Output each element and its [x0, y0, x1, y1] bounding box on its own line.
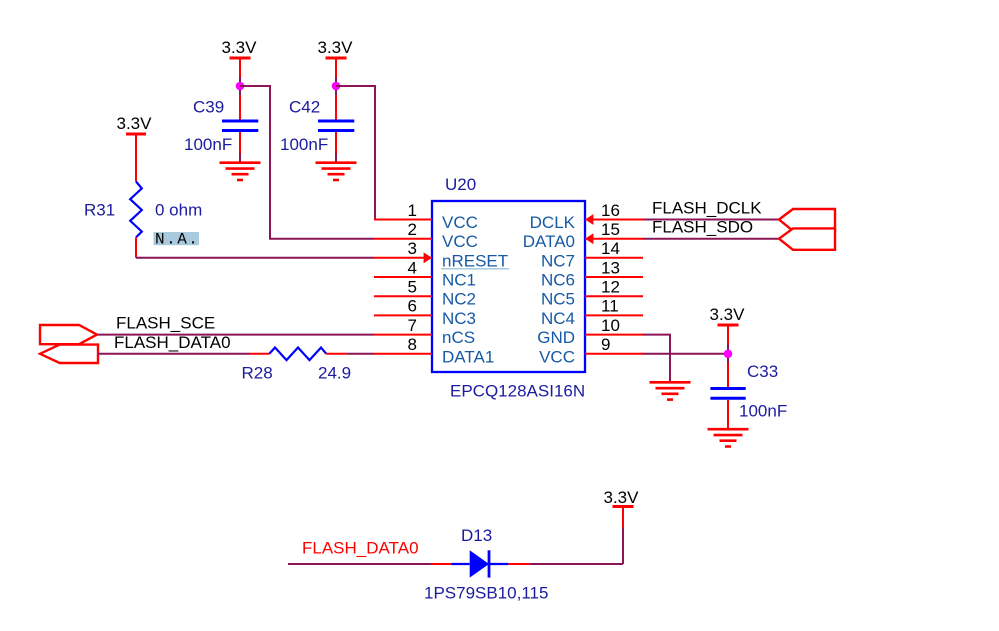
- port FLASH_SCE: [40, 325, 97, 344]
- svg-text:100nF: 100nF: [739, 401, 787, 420]
- svg-text:9: 9: [601, 335, 610, 354]
- svg-text:0 ohm: 0 ohm: [155, 200, 202, 219]
- svg-text:R31: R31: [84, 200, 115, 219]
- svg-text:DCLK: DCLK: [530, 213, 576, 232]
- svg-text:NC5: NC5: [541, 290, 575, 309]
- svg-text:VCC: VCC: [539, 347, 575, 366]
- svg-text:13: 13: [601, 258, 620, 277]
- wire R31 to pin 3 (nRESET): [136, 257, 374, 259]
- svg-text:C42: C42: [289, 98, 320, 117]
- pin 9 stub: [585, 353, 643, 355]
- pin 8 stub: [374, 353, 432, 355]
- svg-text:3.3V: 3.3V: [117, 114, 153, 133]
- svg-text:3.3V: 3.3V: [710, 305, 746, 324]
- wire C39 junction to pin 2: [240, 86, 374, 239]
- svg-text:1: 1: [408, 201, 417, 220]
- svg-text:NC1: NC1: [442, 271, 476, 290]
- svg-text:15: 15: [601, 220, 620, 239]
- wire pin 16 to FLASH_DCLK port: [643, 219, 779, 221]
- junction dot C39 net: [236, 82, 245, 91]
- pin 6 stub: [374, 314, 432, 316]
- pin 14 stub: [585, 257, 643, 259]
- capacitor C42: [318, 121, 354, 162]
- svg-text:12: 12: [601, 278, 620, 297]
- ground for pin 10: [650, 382, 691, 399]
- wire pin 15 to FLASH_SDO port: [643, 238, 779, 240]
- ground under C39: [220, 163, 261, 180]
- svg-text:C33: C33: [747, 362, 778, 381]
- svg-text:6: 6: [408, 297, 417, 316]
- svg-text:NC4: NC4: [541, 309, 575, 328]
- svg-text:24.9: 24.9: [318, 363, 351, 382]
- svg-text:VCC: VCC: [442, 213, 478, 232]
- svg-text:14: 14: [601, 239, 620, 258]
- ground under C33: [708, 429, 749, 446]
- svg-text:FLASH_DCLK: FLASH_DCLK: [652, 199, 762, 218]
- svg-text:C39: C39: [193, 98, 224, 117]
- svg-text:8: 8: [408, 335, 417, 354]
- pin 15 input arrow: [585, 233, 593, 244]
- svg-text:R28: R28: [242, 363, 273, 382]
- pin 13 stub: [585, 276, 643, 278]
- svg-text:NC2: NC2: [442, 290, 476, 309]
- svg-text:3: 3: [408, 239, 417, 258]
- pin 16 input arrow: [585, 214, 593, 225]
- resistor R28: [269, 348, 326, 361]
- svg-text:FLASH_DATA0: FLASH_DATA0: [302, 539, 419, 558]
- junction dot C33 net: [724, 350, 733, 359]
- pin 12 stub: [585, 295, 643, 297]
- wire diode D13 to 3.3V: [508, 507, 623, 565]
- svg-text:nCS: nCS: [442, 328, 475, 347]
- svg-text:NC7: NC7: [541, 251, 575, 270]
- op IC U20 box: [432, 201, 585, 372]
- svg-text:4: 4: [408, 258, 417, 277]
- svg-text:N.A.: N.A.: [155, 231, 199, 249]
- pin 4 stub: [374, 276, 432, 278]
- nRESET active-low underline: [441, 268, 509, 270]
- pin 3 input arrow: [424, 252, 432, 263]
- svg-text:GND: GND: [537, 328, 575, 347]
- pin 15 stub: [585, 238, 643, 240]
- svg-text:3.3V: 3.3V: [318, 38, 354, 57]
- svg-text:10: 10: [601, 316, 620, 335]
- svg-text:1PS79SB10,115: 1PS79SB10,115: [424, 584, 548, 603]
- svg-text:DATA0: DATA0: [523, 232, 575, 251]
- wire FLASH_DATA0 port to R28: [98, 353, 269, 355]
- svg-text:EPCQ128ASI16N: EPCQ128ASI16N: [450, 381, 585, 400]
- pin 7 stub: [374, 334, 432, 336]
- svg-text:nRESET: nRESET: [442, 251, 508, 270]
- svg-text:5: 5: [408, 278, 417, 297]
- svg-text:3.3V: 3.3V: [604, 488, 640, 507]
- svg-text:100nF: 100nF: [280, 135, 328, 154]
- pin 2 stub: [374, 238, 432, 240]
- svg-text:100nF: 100nF: [184, 135, 232, 154]
- svg-text:FLASH_DATA0: FLASH_DATA0: [114, 333, 231, 352]
- pin 3 stub: [374, 257, 432, 259]
- power 3.3V supply for C33: [710, 305, 746, 387]
- svg-text:DATA1: DATA1: [442, 347, 494, 366]
- note N.A. highlighted: [154, 231, 200, 249]
- wire pin 10 (GND) to ground: [643, 335, 670, 382]
- wire pin 9 (VCC) to C33 junction: [643, 353, 728, 355]
- pin 1 stub: [374, 219, 432, 221]
- port FLASH_DCLK: [779, 209, 835, 231]
- wire C42 junction to pin 1: [336, 86, 375, 220]
- power 3.3V supply for C39: [222, 38, 258, 120]
- svg-text:11: 11: [601, 297, 619, 316]
- pin 10 stub: [585, 334, 643, 336]
- power 3.3V supply for R31: [117, 114, 153, 182]
- port FLASH_DATA0: [40, 345, 98, 363]
- wire FLASH_DATA0 to diode D13: [288, 563, 452, 565]
- svg-text:2: 2: [408, 220, 417, 239]
- ground under C42: [316, 163, 357, 180]
- port FLASH_SDO: [779, 228, 835, 249]
- pin 5 stub: [374, 295, 432, 297]
- svg-text:3.3V: 3.3V: [222, 38, 258, 57]
- svg-text:FLASH_SDO: FLASH_SDO: [652, 218, 753, 237]
- wire R28 to pin 8: [326, 353, 374, 355]
- junction dot C42 net: [332, 82, 341, 91]
- svg-text:NC6: NC6: [541, 271, 575, 290]
- power 3.3V supply for D13: [604, 488, 640, 507]
- svg-text:D13: D13: [461, 526, 492, 545]
- resistor R31: [130, 182, 142, 258]
- diode D13: [452, 550, 509, 577]
- svg-text:VCC: VCC: [442, 232, 478, 251]
- svg-text:U20: U20: [445, 175, 476, 194]
- wire FLASH_SCE to pin 7: [97, 334, 374, 336]
- pin 11 stub: [585, 314, 643, 316]
- svg-text:FLASH_SCE: FLASH_SCE: [116, 314, 215, 333]
- svg-text:7: 7: [408, 316, 417, 335]
- power 3.3V supply for C42: [318, 38, 354, 120]
- capacitor C33: [710, 389, 745, 429]
- svg-text:16: 16: [601, 201, 620, 220]
- capacitor C39: [222, 121, 258, 162]
- svg-text:NC3: NC3: [442, 309, 476, 328]
- pin 16 stub: [585, 219, 643, 221]
